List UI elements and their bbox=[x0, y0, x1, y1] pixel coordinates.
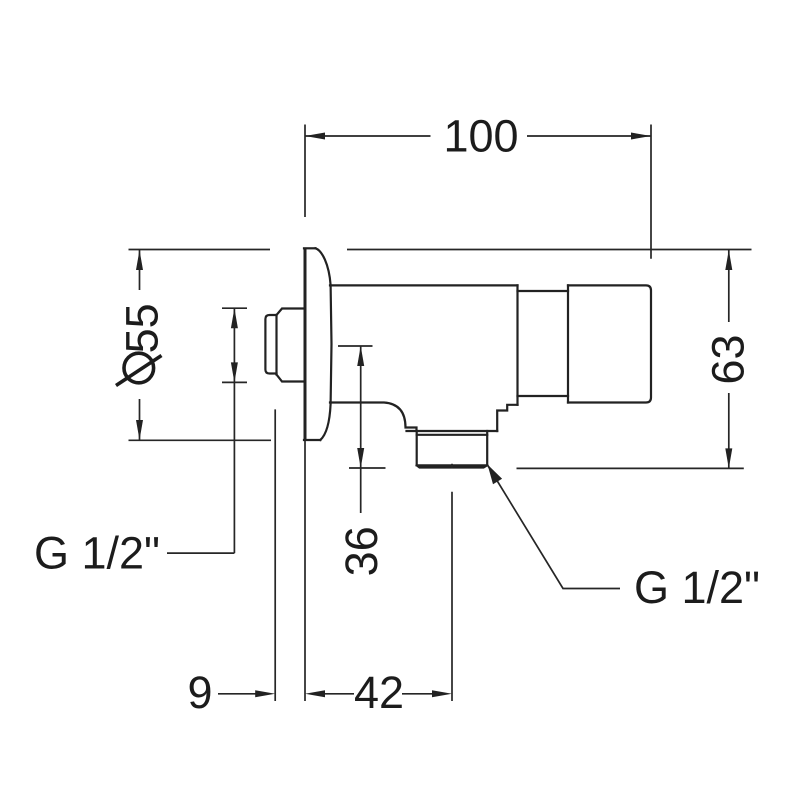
extension line 100 left bbox=[304, 125, 306, 218]
tick mark G1/2 inlet top bbox=[222, 307, 247, 309]
arrow dia55 bottom bbox=[136, 420, 143, 440]
neck top edge bbox=[518, 290, 569, 292]
right inlet block bbox=[568, 285, 651, 402]
valve body left vertical step bbox=[516, 285, 518, 404]
svg-text:63: 63 bbox=[703, 334, 754, 384]
extension line 42 right (outlet axis) bbox=[451, 464, 453, 701]
dia symbol slash of dia55 bbox=[116, 356, 162, 386]
dim line G1/2 inlet bbox=[233, 308, 235, 553]
wall flange top edge bbox=[304, 247, 316, 249]
svg-text:100: 100 bbox=[443, 111, 518, 162]
wall flange right profile bbox=[316, 248, 332, 440]
extension line 9 left (button face) bbox=[274, 409, 276, 701]
valve body right vertical step bbox=[567, 285, 569, 402]
leader arrowhead at outlet bbox=[488, 465, 503, 485]
dim line 63 bbox=[728, 250, 730, 468]
top extension line left segment (flange top level) bbox=[129, 249, 271, 251]
wall flange (escutcheon) left face bbox=[304, 249, 307, 440]
outlet bottom bevel band bbox=[417, 465, 488, 467]
svg-text:42: 42 bbox=[354, 667, 404, 718]
valve body top edge bbox=[330, 284, 518, 286]
outlet right edge bbox=[486, 431, 488, 465]
tick mark G1/2 inlet bottom bbox=[222, 381, 247, 383]
outlet left edge bbox=[416, 431, 418, 465]
svg-text:9: 9 bbox=[187, 667, 212, 718]
arrow 9 (outside, pointing right) bbox=[255, 690, 275, 697]
body bottom edge with fillet bbox=[330, 403, 417, 432]
arrow 42 left bbox=[305, 690, 325, 697]
dia symbol circle of dia55 bbox=[124, 353, 154, 383]
outlet thread line bbox=[417, 434, 488, 436]
top extension line right segment (63 top) bbox=[347, 249, 752, 251]
dim line 9 bbox=[218, 693, 256, 695]
arrow dia55 top bbox=[136, 250, 143, 270]
neck bottom edge bbox=[518, 395, 569, 397]
leader to right G1/2 label bbox=[488, 465, 621, 589]
tick mark 36 top bbox=[338, 345, 373, 347]
outlet boss top line bbox=[407, 430, 498, 432]
dim line 42 bbox=[325, 693, 433, 695]
leader to left G1/2 label bbox=[167, 552, 234, 554]
push button cap bbox=[265, 315, 276, 374]
extension line 9/42 shared (flange face) bbox=[304, 441, 306, 701]
arrow 100 right bbox=[631, 133, 651, 140]
svg-text:G 1/2": G 1/2" bbox=[634, 562, 760, 613]
dim line 100 bbox=[305, 135, 651, 137]
tick mark 36 bottom bbox=[349, 467, 386, 469]
dim line 36 bbox=[360, 346, 362, 513]
bottom extension line of flange (dia 55) bbox=[129, 439, 272, 441]
arrow 42 right bbox=[432, 690, 452, 697]
svg-text:36: 36 bbox=[336, 526, 387, 576]
bottom extension line 63 (outlet bottom level) bbox=[517, 467, 744, 469]
outlet boss right steps bbox=[497, 405, 517, 431]
arrow G1/2 inlet top bbox=[231, 308, 238, 328]
dim line dia55 bbox=[139, 250, 141, 440]
arrow 36 top bbox=[357, 346, 364, 366]
push button base bbox=[277, 309, 305, 382]
arrow 63 top bbox=[725, 250, 732, 270]
svg-text:55: 55 bbox=[117, 303, 168, 353]
wall flange bottom edge bbox=[304, 439, 320, 441]
extension line 100 right bbox=[650, 125, 652, 259]
arrow 63 bottom bbox=[725, 448, 732, 468]
arrow 100 left bbox=[305, 133, 325, 140]
arrow 36 bottom bbox=[357, 448, 364, 468]
svg-text:G 1/2": G 1/2" bbox=[34, 528, 160, 579]
arrow G1/2 inlet bottom bbox=[231, 362, 238, 382]
